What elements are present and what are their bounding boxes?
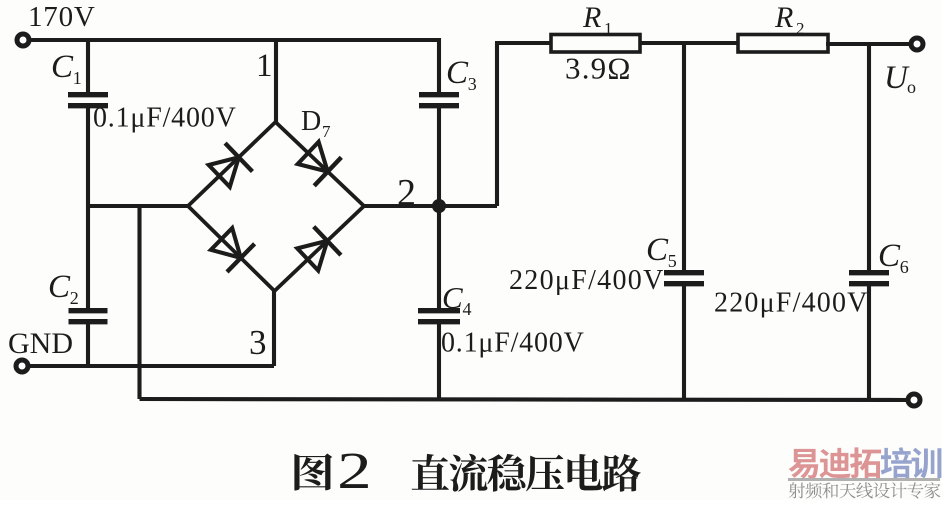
wire top rail 170V — [30, 38, 439, 42]
junction node 2 — [432, 199, 446, 213]
svg-text:0.1μF/400V: 0.1μF/400V — [441, 328, 585, 359]
svg-text:2: 2 — [796, 19, 805, 38]
svg-text:2: 2 — [337, 442, 372, 500]
watermark tagline — [789, 482, 805, 498]
svg-text:GND: GND — [8, 327, 73, 360]
watermark underline — [788, 478, 940, 481]
wire C3 to node 2 — [437, 106, 441, 206]
wire to R1 — [495, 41, 553, 45]
svg-text:2: 2 — [70, 288, 79, 308]
wire R2 to output — [826, 42, 911, 46]
wire R1 to R2 — [640, 41, 740, 45]
wire left branch middle (C1 to C2) — [86, 106, 90, 309]
svg-text:R: R — [774, 1, 793, 34]
wire drop to bottom rail — [137, 206, 141, 399]
capacitor C1 — [68, 92, 108, 97]
wire riser node2 to R1 level — [495, 43, 499, 206]
svg-text:R: R — [582, 1, 601, 34]
terminal output return — [908, 394, 920, 406]
diode D7c (left to bottom) — [211, 228, 241, 258]
svg-text:D: D — [301, 106, 321, 137]
svg-text:7: 7 — [322, 122, 331, 141]
svg-text:C: C — [51, 49, 74, 85]
capacitor C4 — [418, 308, 460, 313]
svg-text:3.9Ω: 3.9Ω — [565, 51, 632, 86]
capacitor C6 — [849, 270, 889, 275]
svg-text:1: 1 — [256, 48, 273, 84]
svg-text:C: C — [878, 238, 901, 274]
wire node 2 horizontal — [364, 204, 497, 208]
capacitor C5 — [664, 270, 704, 275]
svg-text:1: 1 — [604, 19, 613, 38]
wire node 1 riser — [274, 38, 278, 122]
terminal GND — [16, 360, 28, 372]
svg-text:220μF/400V: 220μF/400V — [714, 288, 869, 319]
watermark logo text 易迪拓 — [789, 449, 819, 479]
wire C5 to bottom rail — [682, 284, 686, 399]
svg-text:2: 2 — [397, 172, 416, 214]
watermark logo text 培训 — [881, 447, 912, 478]
svg-text:0.1μF/400V: 0.1μF/400V — [93, 103, 237, 134]
svg-text:C: C — [446, 55, 469, 91]
svg-text:220μF/400V: 220μF/400V — [509, 265, 665, 296]
capacitor C2 — [69, 308, 108, 313]
svg-text:C: C — [48, 269, 71, 305]
svg-text:1: 1 — [73, 68, 82, 88]
wire C6 to bottom rail — [867, 284, 871, 400]
bridge edge top-left — [188, 122, 276, 206]
svg-text:4: 4 — [463, 299, 472, 319]
resistor R2 — [738, 35, 828, 53]
diode D7d (bottom to right) — [297, 241, 327, 271]
resistor R1 — [551, 35, 640, 53]
terminal output Uo — [911, 38, 923, 50]
svg-text:C: C — [646, 232, 669, 268]
diode D7a (left to top) — [209, 157, 239, 187]
svg-text:3: 3 — [249, 323, 267, 362]
svg-text:6: 6 — [900, 257, 909, 277]
caption: figure 2 DC regulated circuit — [294, 454, 332, 491]
wire GND rail — [29, 364, 274, 368]
svg-text:C: C — [442, 280, 463, 315]
svg-text:170V: 170V — [28, 1, 96, 33]
bridge edge bottom-right — [275, 206, 365, 291]
bridge edge top-right — [276, 122, 365, 206]
bridge edge bottom-left — [188, 206, 275, 291]
svg-text:o: o — [907, 77, 916, 97]
wire node 3 drop — [272, 291, 276, 366]
svg-text:5: 5 — [668, 251, 677, 271]
wire C4 to bottom rail — [437, 322, 441, 399]
terminal 170V input — [17, 34, 29, 46]
wire left branch top (to C1) — [86, 40, 90, 92]
diode D7b (top to right) — [298, 142, 328, 172]
capacitor C3 — [419, 92, 459, 97]
svg-text:3: 3 — [468, 74, 477, 94]
wire C3 top drop — [437, 38, 441, 93]
wire C5 riser — [682, 43, 686, 271]
wire bottom rail — [140, 399, 909, 400]
wire C6 riser — [867, 44, 871, 271]
wire bridge left feed — [88, 204, 188, 208]
wire node 2 to C4 — [437, 206, 441, 309]
wire left branch bottom (C2 to GND wire) — [86, 322, 90, 366]
